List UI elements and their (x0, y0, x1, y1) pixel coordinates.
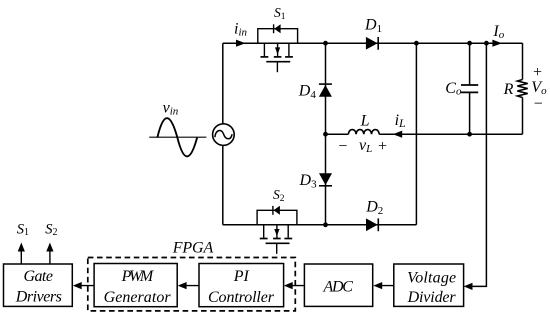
svg-text:D3: D3 (299, 172, 318, 191)
svg-text:iin: iin (234, 21, 248, 39)
svg-text:Voltage: Voltage (407, 269, 456, 286)
svg-text:S2: S2 (273, 187, 285, 204)
svg-text:S2: S2 (45, 221, 57, 238)
svg-text:+: + (377, 138, 388, 155)
svg-text:PWM: PWM (121, 268, 155, 285)
svg-text:Co: Co (445, 80, 462, 98)
svg-text:Gate: Gate (23, 268, 53, 285)
svg-text:D1: D1 (364, 16, 382, 35)
svg-text:−: − (337, 138, 348, 155)
svg-text:Controller: Controller (208, 289, 275, 306)
svg-text:S1: S1 (17, 221, 29, 238)
svg-text:vL: vL (359, 137, 372, 155)
svg-text:Divider: Divider (407, 289, 457, 306)
svg-text:−: − (533, 95, 544, 112)
svg-text:Vo: Vo (531, 79, 547, 97)
svg-text:S1: S1 (274, 5, 286, 22)
svg-text:D4: D4 (298, 83, 317, 102)
svg-text:FPGA: FPGA (172, 240, 214, 257)
svg-text:L: L (360, 113, 370, 130)
svg-text:vin: vin (163, 99, 179, 117)
svg-text:iL: iL (395, 112, 406, 130)
svg-text:Drivers: Drivers (15, 289, 62, 306)
svg-text:R: R (503, 81, 514, 98)
svg-text:D2: D2 (365, 198, 383, 217)
svg-text:ADC: ADC (322, 279, 353, 296)
svg-text:Io: Io (492, 23, 504, 41)
svg-text:Generator: Generator (104, 289, 172, 306)
svg-text:PI: PI (233, 268, 250, 285)
